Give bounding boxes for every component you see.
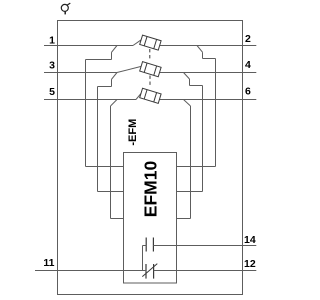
svg-text:2: 2 bbox=[245, 33, 251, 45]
earth screw terminal bbox=[61, 3, 70, 14]
module box U1 EFM10 bbox=[124, 153, 177, 284]
wire line4 from choke to pin 4 bbox=[160, 72, 243, 74]
choke common core dashed line bbox=[149, 49, 151, 88]
choke winding L1 bbox=[140, 35, 161, 50]
tap node line5 bbox=[111, 100, 118, 107]
tap node line4 bbox=[184, 73, 203, 86]
wire line5 to choke diagonal bbox=[136, 93, 141, 99]
svg-text:11: 11 bbox=[43, 257, 54, 269]
tap wire line5 into module bbox=[111, 218, 124, 220]
svg-text:-EFM: -EFM bbox=[127, 119, 139, 146]
svg-text:12: 12 bbox=[244, 258, 256, 270]
wire line3 to choke diagonal bbox=[117, 66, 141, 72]
tap wire line1 vertical bbox=[85, 60, 87, 167]
tap node line3 bbox=[98, 73, 118, 87]
svg-text:EFM10: EFM10 bbox=[141, 161, 161, 218]
capacitor C2 variable to pin 12 bbox=[142, 264, 157, 279]
choke winding L2 bbox=[140, 62, 161, 77]
tap wire line4 vertical bbox=[202, 86, 204, 192]
pin 11 bbox=[35, 270, 58, 272]
wire line2 from choke to pin 2 bbox=[160, 45, 243, 47]
svg-text:5: 5 bbox=[49, 86, 55, 98]
svg-text:4: 4 bbox=[245, 59, 251, 71]
wire pin 11 to C2 bbox=[58, 270, 147, 272]
tap wire line6 into module bbox=[177, 218, 191, 220]
pin 1 bbox=[44, 45, 58, 47]
wire line6 from choke to pin 6 bbox=[160, 99, 243, 101]
wire C2 to pin 12 bbox=[154, 270, 257, 272]
tap wire line4 into module bbox=[177, 191, 203, 193]
svg-text:6: 6 bbox=[245, 86, 251, 98]
svg-text:14: 14 bbox=[244, 234, 256, 246]
svg-text:3: 3 bbox=[49, 60, 55, 72]
pin 3 bbox=[44, 72, 58, 74]
wire C1 left lead bbox=[143, 246, 147, 271]
tap wire line2 vertical bbox=[215, 59, 217, 167]
tap wire line3 vertical bbox=[97, 87, 99, 192]
outer enclosure box bbox=[58, 21, 243, 295]
wire line1 horizontal bbox=[58, 45, 134, 47]
pin 6 bbox=[243, 99, 257, 101]
capacitor C1 to pin 14 bbox=[146, 238, 153, 252]
tap node line2 bbox=[197, 46, 216, 59]
tap wire line3 into module bbox=[98, 191, 124, 193]
pin 2 bbox=[243, 45, 257, 47]
tap wire line5 vertical bbox=[110, 106, 112, 219]
tap node line6 bbox=[184, 100, 191, 107]
wire line3 horizontal bbox=[58, 72, 118, 74]
wire line1 to choke diagonal bbox=[133, 40, 141, 46]
choke winding L3 bbox=[140, 88, 161, 103]
tap wire line2 into module bbox=[177, 166, 216, 168]
pin 4 bbox=[243, 72, 257, 74]
pin 5 bbox=[44, 99, 58, 101]
wire C1 to pin 14 bbox=[153, 245, 256, 247]
svg-text:1: 1 bbox=[49, 35, 55, 47]
tap node line1 bbox=[86, 46, 118, 60]
tap wire line1 into module bbox=[86, 166, 124, 168]
wire line5 horizontal bbox=[58, 99, 137, 101]
tap wire line6 vertical bbox=[190, 106, 192, 219]
